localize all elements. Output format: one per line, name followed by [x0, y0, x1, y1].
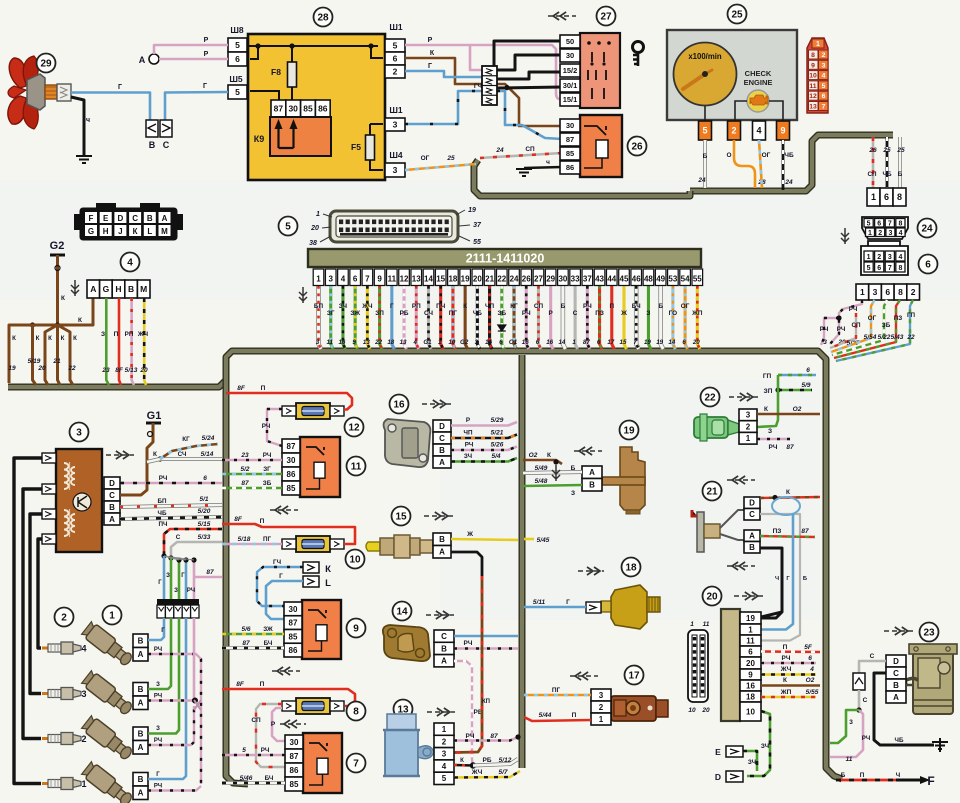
svg-text:85: 85: [566, 149, 574, 158]
svg-text:9: 9: [780, 126, 785, 136]
svg-text:7: 7: [353, 759, 359, 770]
svg-text:10: 10: [448, 339, 455, 346]
svg-text:8: 8: [898, 287, 903, 297]
svg-text:Б: Б: [703, 153, 708, 160]
svg-text:Р: Р: [466, 417, 470, 424]
svg-text:13: 13: [412, 275, 421, 284]
svg-text:З: З: [101, 331, 105, 338]
svg-text:5: 5: [442, 774, 447, 783]
svg-text:З: З: [156, 682, 160, 688]
svg-text:7: 7: [633, 339, 637, 346]
svg-text:5/11: 5/11: [533, 599, 546, 606]
svg-text:3: 3: [849, 719, 853, 726]
svg-text:Ш1: Ш1: [389, 22, 403, 32]
svg-text:5: 5: [285, 222, 291, 233]
svg-text:Ш1: Ш1: [389, 105, 403, 115]
svg-text:А: А: [90, 284, 96, 294]
svg-text:П: П: [260, 518, 265, 525]
svg-text:О2: О2: [806, 677, 815, 684]
svg-text:6: 6: [885, 287, 890, 297]
svg-text:РЧ: РЧ: [159, 475, 168, 482]
svg-text:14: 14: [668, 339, 675, 346]
svg-text:КГ: КГ: [510, 303, 518, 310]
svg-text:15/2: 15/2: [563, 66, 578, 75]
svg-text:3: 3: [823, 339, 827, 346]
svg-text:СП: СП: [867, 171, 877, 178]
svg-text:2: 2: [393, 67, 398, 77]
svg-text:ЖЧ: ЖЧ: [361, 303, 373, 310]
svg-text:2: 2: [61, 613, 67, 624]
svg-text:РП: РП: [125, 331, 134, 338]
svg-text:D: D: [109, 479, 115, 488]
svg-text:5/9: 5/9: [801, 382, 810, 389]
svg-text:ЧБ: ЧБ: [158, 510, 167, 517]
svg-text:5/43: 5/43: [891, 334, 904, 341]
svg-text:5/19: 5/19: [28, 358, 41, 365]
svg-text:А: А: [139, 55, 146, 65]
svg-text:44: 44: [607, 275, 616, 284]
svg-text:22: 22: [67, 365, 76, 372]
svg-text:8: 8: [898, 265, 902, 272]
svg-text:В: В: [138, 637, 144, 646]
svg-text:25: 25: [882, 147, 891, 154]
svg-text:С: С: [176, 534, 181, 541]
svg-text:5: 5: [242, 747, 246, 754]
svg-text:Р: Р: [204, 51, 209, 58]
svg-text:7: 7: [365, 275, 370, 284]
svg-text:2: 2: [877, 254, 881, 261]
svg-text:4: 4: [413, 339, 418, 346]
svg-text:29: 29: [40, 59, 52, 70]
svg-text:12: 12: [348, 423, 360, 434]
svg-text:6: 6: [877, 221, 881, 228]
svg-text:22: 22: [906, 334, 915, 341]
svg-text:5/20: 5/20: [198, 508, 211, 515]
svg-text:15: 15: [620, 339, 627, 346]
svg-text:26: 26: [631, 142, 643, 153]
svg-text:К: К: [153, 451, 157, 458]
svg-text:Г: Г: [390, 303, 394, 310]
svg-text:РЧ: РЧ: [862, 735, 870, 742]
svg-text:50: 50: [566, 37, 574, 46]
svg-text:D: D: [439, 422, 445, 431]
svg-text:21: 21: [52, 358, 61, 365]
svg-text:Ш4: Ш4: [389, 150, 403, 160]
svg-text:РЧ: РЧ: [465, 442, 474, 449]
svg-text:РЧ: РЧ: [154, 694, 162, 700]
svg-text:С: С: [573, 310, 578, 317]
svg-text:Р: Р: [428, 37, 433, 44]
svg-text:F: F: [927, 774, 934, 788]
svg-text:5/45: 5/45: [537, 537, 550, 544]
svg-text:25: 25: [731, 10, 743, 21]
svg-text:6: 6: [884, 192, 889, 202]
svg-text:ОГ: ОГ: [681, 303, 690, 310]
svg-text:В: В: [441, 644, 447, 653]
svg-text:3: 3: [746, 411, 751, 420]
svg-text:16: 16: [522, 339, 529, 346]
svg-text:14: 14: [396, 607, 408, 618]
svg-text:П: П: [572, 712, 577, 719]
svg-text:3: 3: [316, 339, 320, 346]
svg-text:КП: КП: [482, 699, 490, 705]
svg-text:5/14: 5/14: [201, 451, 214, 458]
svg-text:11: 11: [809, 83, 816, 90]
svg-text:Б: Б: [571, 465, 576, 472]
svg-text:Н: Н: [115, 284, 121, 294]
svg-text:22: 22: [704, 393, 716, 404]
svg-text:5/21: 5/21: [491, 430, 504, 437]
svg-text:30: 30: [566, 51, 574, 60]
svg-text:1: 1: [599, 715, 604, 724]
svg-text:5/12: 5/12: [499, 757, 512, 764]
svg-text:3: 3: [76, 428, 82, 439]
svg-text:Г: Г: [428, 63, 432, 70]
svg-text:19: 19: [644, 339, 651, 346]
svg-text:15: 15: [436, 275, 445, 284]
svg-text:5/44: 5/44: [539, 712, 552, 719]
svg-text:А: А: [138, 650, 144, 659]
svg-text:2: 2: [81, 734, 86, 744]
svg-text:С: С: [439, 434, 445, 443]
svg-text:1: 1: [871, 192, 876, 202]
svg-text:6: 6: [748, 647, 753, 656]
svg-text:О1: О1: [509, 339, 518, 346]
svg-text:19: 19: [746, 614, 755, 623]
svg-text:19: 19: [461, 275, 470, 284]
svg-text:Ж: Ж: [466, 531, 473, 538]
svg-text:1: 1: [816, 41, 820, 48]
svg-text:РП: РП: [412, 303, 421, 310]
svg-text:8F: 8F: [115, 367, 124, 374]
svg-text:К: К: [133, 227, 138, 236]
svg-text:5/49: 5/49: [535, 465, 548, 472]
svg-text:РБ: РБ: [482, 757, 491, 764]
svg-text:1: 1: [81, 779, 86, 789]
svg-text:К: К: [786, 489, 790, 496]
svg-text:Б: Б: [658, 303, 663, 310]
svg-text:23: 23: [240, 452, 249, 459]
svg-text:Б: Б: [803, 576, 807, 582]
svg-text:19: 19: [468, 207, 476, 214]
svg-text:Ч: Ч: [775, 576, 779, 582]
svg-text:РЧ: РЧ: [522, 310, 531, 317]
svg-text:5/24: 5/24: [202, 435, 215, 442]
svg-text:Н: Н: [103, 227, 109, 236]
svg-text:ЧП: ЧП: [485, 303, 494, 310]
svg-text:F8: F8: [271, 67, 281, 77]
svg-text:87: 87: [241, 480, 249, 487]
svg-text:1: 1: [572, 339, 576, 346]
svg-text:1: 1: [748, 625, 753, 634]
svg-text:6: 6: [499, 339, 503, 346]
svg-text:К: К: [430, 50, 435, 57]
svg-text:4: 4: [899, 230, 903, 237]
svg-text:В: В: [439, 535, 445, 544]
svg-text:А: А: [589, 468, 595, 477]
svg-text:6: 6: [925, 260, 931, 271]
svg-text:37: 37: [473, 222, 482, 229]
svg-text:ЖЧ: ЖЧ: [471, 769, 483, 776]
svg-text:К: К: [61, 295, 65, 302]
svg-text:Б: Б: [841, 772, 846, 779]
svg-text:9: 9: [748, 670, 753, 679]
svg-text:К9: К9: [254, 134, 265, 144]
svg-text:30: 30: [290, 738, 299, 747]
svg-text:ЗГ: ЗГ: [327, 310, 335, 317]
svg-text:ГО: ГО: [669, 310, 678, 317]
svg-text:В: В: [439, 446, 445, 455]
svg-text:5F: 5F: [804, 644, 813, 651]
svg-text:20: 20: [692, 339, 700, 346]
svg-text:З: З: [166, 573, 170, 579]
svg-text:9: 9: [352, 339, 356, 346]
svg-text:5/33: 5/33: [198, 534, 211, 541]
svg-text:З: З: [768, 428, 772, 435]
svg-text:5/4: 5/4: [491, 453, 500, 460]
svg-text:15/1: 15/1: [563, 95, 578, 104]
svg-text:Е: Е: [103, 214, 109, 223]
svg-text:20: 20: [701, 707, 710, 714]
svg-text:87: 87: [566, 135, 574, 144]
svg-text:4: 4: [756, 126, 761, 136]
svg-text:Г: Г: [158, 580, 162, 586]
svg-text:15: 15: [395, 512, 407, 523]
svg-text:СП: СП: [525, 146, 535, 153]
svg-text:В: В: [749, 543, 755, 552]
svg-text:G2: G2: [460, 339, 469, 346]
svg-text:D: D: [893, 657, 899, 666]
svg-text:А: А: [138, 789, 144, 798]
svg-text:20: 20: [473, 275, 482, 284]
svg-text:С: С: [893, 669, 899, 678]
svg-text:РЧ: РЧ: [769, 444, 778, 451]
svg-text:А: А: [893, 693, 899, 702]
svg-text:В: В: [589, 481, 595, 490]
svg-text:ЗЧ: ЗЧ: [748, 759, 756, 766]
svg-text:К: К: [48, 335, 52, 342]
svg-text:3: 3: [873, 287, 878, 297]
svg-text:2: 2: [822, 52, 826, 59]
svg-text:ЗЖ: ЗЖ: [263, 626, 273, 633]
svg-text:П: П: [261, 385, 266, 392]
svg-text:13: 13: [400, 339, 407, 346]
svg-text:2: 2: [911, 287, 916, 297]
svg-text:РЧ: РЧ: [154, 784, 162, 790]
svg-text:РЧ: РЧ: [187, 588, 195, 594]
svg-text:6: 6: [822, 93, 826, 100]
svg-text:ЗБ: ЗБ: [497, 310, 506, 317]
svg-text:5/2: 5/2: [240, 466, 249, 473]
svg-text:17: 17: [628, 671, 640, 682]
svg-text:C: C: [163, 140, 170, 150]
svg-text:55: 55: [473, 239, 481, 246]
svg-text:21: 21: [706, 487, 718, 498]
svg-text:30: 30: [287, 456, 296, 465]
svg-text:БП: БП: [314, 303, 324, 310]
svg-text:СП: СП: [251, 717, 261, 724]
svg-text:87: 87: [786, 444, 794, 451]
svg-text:К: К: [764, 406, 768, 413]
svg-text:БЧ: БЧ: [632, 303, 641, 310]
svg-text:30: 30: [558, 275, 567, 284]
svg-text:23: 23: [923, 628, 935, 639]
svg-text:86: 86: [566, 163, 574, 172]
svg-text:1: 1: [316, 275, 321, 284]
svg-text:D: D: [715, 772, 721, 782]
svg-text:А: А: [439, 458, 445, 467]
svg-text:Р: Р: [549, 310, 554, 317]
svg-text:ENGINE: ENGINE: [744, 78, 773, 87]
svg-text:54: 54: [681, 275, 690, 284]
svg-text:22: 22: [497, 275, 506, 284]
svg-text:СП: СП: [534, 303, 544, 310]
svg-text:G1: G1: [423, 339, 432, 346]
svg-text:85: 85: [303, 104, 313, 114]
svg-text:ЖП: ЖП: [780, 689, 792, 696]
svg-text:РЧ: РЧ: [583, 303, 592, 310]
svg-text:19: 19: [8, 365, 16, 372]
svg-text:5/22: 5/22: [878, 334, 891, 341]
svg-text:13: 13: [809, 104, 817, 111]
svg-text:1: 1: [860, 287, 865, 297]
svg-text:ПЗ: ПЗ: [773, 528, 782, 535]
svg-text:5: 5: [867, 221, 871, 228]
svg-text:СЧ: СЧ: [178, 451, 187, 458]
svg-text:18: 18: [387, 339, 394, 346]
svg-text:46: 46: [632, 275, 641, 284]
svg-text:3: 3: [81, 689, 86, 699]
svg-text:СЧ: СЧ: [424, 310, 433, 317]
svg-text:ПГ: ПГ: [263, 536, 272, 543]
svg-text:11: 11: [746, 636, 755, 645]
svg-text:12: 12: [809, 93, 817, 100]
svg-text:Ж: Ж: [620, 310, 627, 317]
svg-text:G: G: [103, 284, 110, 294]
svg-text:В: В: [128, 284, 134, 294]
svg-text:ЧБ: ЧБ: [895, 737, 904, 744]
svg-text:ЗБ: ЗБ: [882, 322, 891, 329]
svg-text:L: L: [147, 227, 152, 236]
svg-text:43: 43: [595, 275, 604, 284]
svg-text:17: 17: [607, 339, 614, 346]
svg-text:10: 10: [349, 555, 361, 566]
svg-text:В: В: [893, 681, 899, 690]
svg-text:1: 1: [867, 254, 871, 261]
svg-text:30: 30: [288, 104, 298, 114]
svg-text:5/26: 5/26: [491, 442, 504, 449]
svg-text:М: М: [161, 227, 168, 236]
svg-text:8: 8: [897, 192, 902, 202]
svg-text:РЧ: РЧ: [262, 423, 271, 430]
svg-text:РЧ: РЧ: [820, 326, 829, 333]
svg-text:С: С: [441, 632, 447, 641]
svg-text:D: D: [749, 499, 755, 508]
svg-text:1: 1: [316, 211, 320, 218]
svg-text:5/6: 5/6: [241, 626, 250, 633]
svg-text:87: 87: [583, 339, 590, 346]
svg-text:6: 6: [393, 54, 398, 64]
svg-text:РЧ: РЧ: [154, 647, 162, 653]
svg-text:ПГ: ПГ: [552, 687, 561, 694]
svg-text:6: 6: [597, 339, 601, 346]
svg-text:5: 5: [822, 83, 826, 90]
svg-text:ЗП: ЗП: [764, 388, 773, 395]
svg-text:7: 7: [822, 104, 826, 111]
svg-text:К: К: [73, 335, 77, 342]
svg-text:5/13: 5/13: [125, 367, 138, 374]
svg-text:8: 8: [353, 707, 359, 718]
svg-text:В: В: [138, 685, 144, 694]
svg-text:27: 27: [534, 275, 543, 284]
svg-text:8F: 8F: [234, 516, 243, 523]
svg-text:23: 23: [101, 367, 110, 374]
svg-text:85: 85: [287, 484, 296, 493]
svg-text:B: B: [149, 140, 156, 150]
svg-text:РЧ: РЧ: [154, 738, 162, 744]
svg-text:33: 33: [571, 275, 580, 284]
svg-text:2: 2: [878, 230, 882, 237]
svg-text:20: 20: [37, 365, 46, 372]
svg-text:6: 6: [536, 339, 540, 346]
svg-text:20: 20: [139, 367, 148, 374]
svg-text:3: 3: [442, 750, 447, 759]
svg-text:16: 16: [546, 339, 553, 346]
svg-text:БП: БП: [157, 498, 167, 505]
svg-text:87: 87: [490, 733, 498, 740]
svg-text:РЧ: РЧ: [261, 747, 270, 754]
svg-text:С: С: [870, 653, 875, 660]
svg-text:F: F: [89, 214, 94, 223]
svg-text:6: 6: [235, 54, 240, 64]
svg-text:8: 8: [898, 221, 902, 228]
svg-text:L: L: [325, 578, 331, 589]
svg-text:Ш5: Ш5: [229, 74, 243, 84]
svg-text:П: П: [783, 644, 788, 651]
svg-text:ЧП: ЧП: [464, 430, 473, 437]
svg-text:А: А: [439, 548, 445, 557]
svg-text:БЧ: БЧ: [265, 775, 274, 782]
svg-text:РЧ: РЧ: [849, 306, 858, 313]
svg-text:ЖЧ: ЖЧ: [780, 666, 792, 673]
svg-text:П: П: [260, 681, 265, 688]
svg-text:ПЗ: ПЗ: [894, 315, 903, 322]
svg-text:З: З: [174, 588, 178, 594]
svg-text:ЗП: ЗП: [375, 310, 384, 317]
svg-text:48: 48: [644, 275, 653, 284]
svg-text:11: 11: [351, 462, 362, 473]
svg-text:А: А: [441, 657, 447, 666]
svg-text:85: 85: [289, 632, 298, 641]
svg-text:4: 4: [442, 762, 447, 771]
svg-text:24: 24: [921, 224, 933, 235]
svg-text:24: 24: [697, 177, 706, 184]
svg-text:П: П: [609, 303, 614, 310]
svg-text:11: 11: [327, 339, 334, 346]
svg-text:4: 4: [127, 258, 133, 269]
svg-text:А: А: [162, 214, 168, 223]
svg-text:45: 45: [620, 275, 629, 284]
svg-text:86: 86: [290, 766, 299, 775]
svg-text:30/1: 30/1: [563, 81, 578, 90]
svg-text:18: 18: [448, 275, 457, 284]
svg-text:16: 16: [746, 681, 755, 690]
svg-text:2: 2: [442, 737, 447, 746]
svg-text:G1: G1: [147, 410, 162, 422]
svg-text:С: С: [863, 697, 868, 704]
svg-text:10: 10: [746, 707, 755, 716]
svg-text:6: 6: [682, 339, 686, 346]
